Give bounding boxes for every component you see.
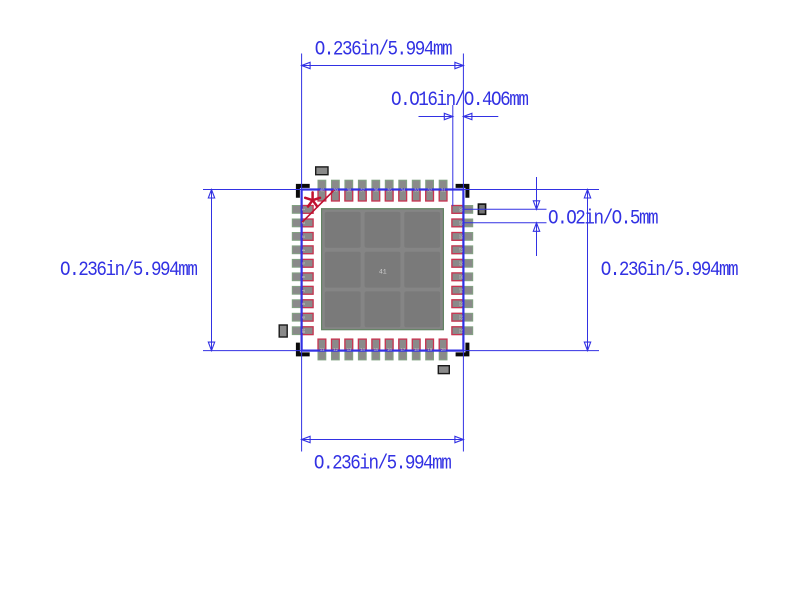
svg-text:17: 17	[400, 347, 405, 353]
svg-text:26: 26	[458, 261, 464, 266]
svg-text:31: 31	[441, 187, 446, 193]
svg-text:27: 27	[458, 247, 464, 252]
svg-text:25: 25	[458, 274, 464, 279]
svg-text:10: 10	[300, 328, 306, 333]
svg-text:34: 34	[400, 187, 405, 193]
svg-text:29: 29	[458, 221, 464, 226]
svg-text:22: 22	[458, 315, 464, 320]
svg-text:O.236in/5.994mm: O.236in/5.994mm	[601, 258, 739, 281]
svg-text:O.O2in/O.5mm: O.O2in/O.5mm	[548, 206, 658, 229]
svg-text:41: 41	[379, 269, 387, 276]
svg-text:37: 37	[360, 187, 365, 193]
svg-text:O.236in/5.994mm: O.236in/5.994mm	[314, 452, 452, 475]
svg-text:33: 33	[414, 187, 419, 193]
svg-text:32: 32	[427, 187, 432, 193]
svg-text:O.236in/5.994mm: O.236in/5.994mm	[60, 258, 198, 281]
svg-text:O.236in/5.994mm: O.236in/5.994mm	[315, 38, 453, 61]
svg-text:30: 30	[458, 207, 464, 212]
svg-text:12: 12	[333, 347, 338, 353]
svg-text:18: 18	[414, 347, 419, 353]
svg-text:15: 15	[373, 347, 378, 353]
svg-text:38: 38	[346, 187, 351, 193]
svg-text:21: 21	[458, 328, 464, 333]
svg-text:20: 20	[441, 347, 446, 353]
svg-text:39: 39	[333, 187, 338, 193]
svg-text:24: 24	[458, 288, 464, 293]
svg-text:16: 16	[387, 347, 392, 353]
svg-text:14: 14	[360, 347, 365, 353]
svg-text:35: 35	[387, 187, 392, 193]
svg-text:36: 36	[373, 187, 378, 193]
svg-text:40: 40	[320, 187, 325, 193]
svg-text:19: 19	[427, 347, 432, 353]
svg-text:11: 11	[320, 347, 325, 353]
svg-text:23: 23	[458, 301, 464, 306]
svg-text:28: 28	[458, 234, 464, 239]
svg-text:O.O16in/O.4O6mm: O.O16in/O.4O6mm	[391, 88, 529, 111]
svg-text:13: 13	[346, 347, 351, 353]
